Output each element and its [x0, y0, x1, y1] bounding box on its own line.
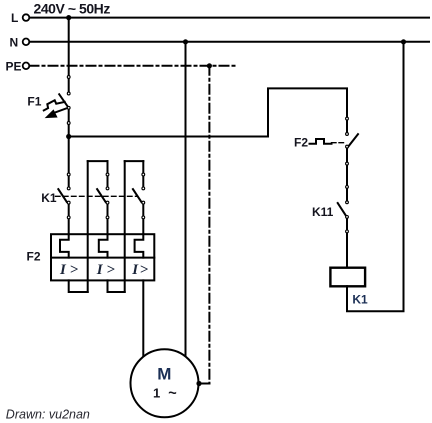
wire pole3 to motor	[142, 280, 144, 357]
fuse-switch F1	[44, 76, 70, 125]
thermal contact F2	[346, 117, 358, 165]
svg-text:240V ~ 50Hz: 240V ~ 50Hz	[34, 0, 111, 16]
coil K1	[330, 268, 365, 287]
svg-text:M: M	[157, 364, 171, 383]
wire U-loop 2	[108, 280, 125, 292]
svg-text:Drawn: vu2nan: Drawn: vu2nan	[6, 408, 90, 422]
wire K11 to coil	[346, 217, 348, 268]
contact K11	[338, 186, 349, 233]
F2 heater pole 1	[60, 234, 69, 257]
overload relay F2 block	[51, 234, 154, 280]
contactor K1 pole 1	[58, 173, 70, 219]
bus L	[30, 17, 430, 19]
F2 heater pole 2	[99, 234, 108, 257]
svg-text:K11: K11	[312, 205, 334, 219]
terminal L	[23, 14, 30, 21]
wire link2 pole3 top	[125, 161, 144, 292]
svg-text:N: N	[10, 35, 19, 49]
F2 thermal element symbol	[310, 139, 332, 144]
wire control branch	[69, 88, 347, 136]
terminal PE	[23, 63, 30, 70]
wire N drop	[185, 42, 187, 357]
svg-text:K1: K1	[41, 191, 57, 205]
svg-text:F2: F2	[294, 136, 308, 150]
node L tap	[66, 15, 71, 20]
svg-text:I >: I >	[96, 262, 116, 278]
svg-text:K1: K1	[352, 293, 368, 307]
wire K1 pole1 to F2	[68, 203, 70, 235]
wire coil to N	[347, 42, 404, 312]
node PE tap	[207, 63, 212, 68]
svg-text:I>: I>	[131, 262, 150, 278]
svg-text:I >: I >	[59, 262, 79, 278]
node N drop	[183, 39, 188, 44]
bus N	[30, 41, 430, 43]
wire F2 to K11	[346, 147, 348, 203]
node control tap	[66, 134, 71, 139]
wire PE to motor frame	[199, 383, 209, 385]
svg-text:~: ~	[168, 386, 176, 402]
svg-text:PE: PE	[6, 59, 22, 73]
svg-text:1: 1	[153, 386, 160, 401]
K1 linkage dashed	[56, 195, 138, 197]
wire L to F1	[68, 18, 70, 94]
node coil return	[401, 39, 406, 44]
F2 heater pole 3	[135, 234, 144, 257]
F2 linkage dashed	[332, 142, 346, 144]
contactor K1 pole 3	[133, 173, 145, 234]
svg-text:F2: F2	[27, 250, 41, 264]
terminal N	[23, 39, 30, 46]
svg-text:F1: F1	[27, 95, 41, 109]
wire F1 to K1 pole1	[68, 108, 70, 189]
wire U-loop 1	[69, 280, 88, 292]
contactor K1 pole 2	[97, 173, 109, 234]
motor M	[131, 349, 199, 417]
svg-text:L: L	[11, 11, 18, 25]
node motor frame	[196, 381, 201, 386]
bus PE	[30, 65, 238, 67]
wire PE drop	[208, 66, 210, 384]
wire link1 pole2 top	[88, 161, 108, 292]
